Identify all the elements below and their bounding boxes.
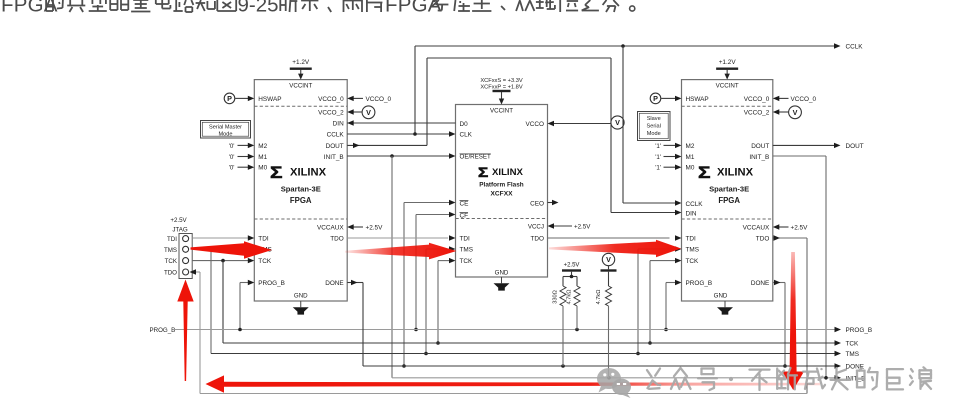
mode box Serial Master Mode [201, 121, 251, 139]
U1 pin label VCCO_0 [318, 96, 344, 103]
U1 pin label M0 [258, 165, 267, 172]
node CCLK top junction [621, 44, 625, 48]
node U1 PROG_B junction [238, 328, 242, 332]
U2 pin label GND [495, 269, 509, 276]
wire CCLK down to U3 [623, 46, 682, 206]
node CE-DONE junction [402, 364, 406, 368]
wire VCCO_0 into U3 [773, 96, 789, 101]
J1 pin circle TDO [183, 269, 189, 275]
wire V into U1 VCCO_2 [347, 109, 362, 114]
wire 1 to U3 M1 [664, 154, 682, 159]
U2 pin label CEO [530, 200, 544, 207]
wire U2 TDO to U3 TDI [548, 235, 682, 240]
logic 0 label at U1 M1 [229, 154, 235, 161]
U3 internal dashed separator top [682, 105, 773, 107]
wire J1 TMS to U1 TMS [192, 246, 254, 251]
U1 pin label VCCAUX [317, 225, 344, 232]
red arrow U2 TDO to U3 TMS [549, 240, 681, 257]
logic 0 label at U1 M0 [229, 165, 235, 172]
supply symbol V at U1 VCCO_2 [362, 106, 375, 119]
resistor R3 label 4.7k [596, 290, 602, 305]
wire PROG_B net to U2 CF [416, 212, 456, 330]
U1 pin label INIT_B [324, 154, 344, 161]
wire PROG_B to U3 [666, 280, 682, 330]
watermark wechat logo big bubble [597, 368, 621, 393]
U2 pin label VCCJ [528, 224, 544, 231]
U3 pin label TDO [756, 236, 770, 243]
watermark wechat logo small bubble [612, 379, 631, 398]
watermark text [647, 367, 931, 390]
node U3 DONE junction [783, 364, 787, 368]
U1 pin label CCLK [327, 132, 345, 139]
U2 pin label TDI [460, 236, 471, 243]
wire CCLK vertical from U1 [414, 46, 416, 134]
node U2 TCK junction [436, 341, 440, 345]
node INIT_B 4.7k junction [607, 376, 611, 380]
wire U1 PROG_B up [240, 280, 254, 330]
label PROG_B left [150, 327, 176, 334]
wire 0 to U1 M2 [238, 143, 255, 148]
mode box Slave Serial Mode [638, 112, 671, 141]
wire U1 DOUT out [347, 143, 427, 148]
pullup symbol P for U1 HSWAP [224, 93, 235, 104]
supply symbol V at U3 VCCO_2 [789, 106, 802, 119]
U3 pin label VCCAUX [743, 225, 770, 232]
wire 0 to U1 M1 [238, 154, 255, 159]
resistor R1 label 330 [553, 290, 559, 304]
wire U1 INIT_B to U2 OE/RESET [347, 153, 455, 158]
U2 pin label TCK [460, 258, 474, 265]
red arrow U1 TDO to U2 TMS [345, 243, 457, 260]
U3 pin label TDI [686, 236, 697, 243]
wire J1 TCK to U1 TCK [192, 258, 254, 263]
U2 pin label TMS [460, 247, 474, 254]
U1 label FPGA [290, 196, 312, 205]
wire CCLK top net [415, 43, 841, 48]
wire TCK to U2 [438, 258, 456, 343]
node U3 PROG_B junction [664, 328, 668, 332]
supply symbol V for PROG_B pullup [602, 253, 614, 265]
wire J1 TDI to U1 TDI [192, 235, 254, 240]
wire TMS bus [211, 351, 841, 356]
resistor R2 label 4.7k [567, 290, 573, 305]
wire U3 DOUT out [773, 143, 841, 148]
wire TMS to U3 [638, 246, 682, 353]
U2 pin label D0 [460, 121, 469, 128]
wire TCK bus [223, 340, 841, 345]
power +1.2V for U1 [290, 59, 312, 80]
logic 1 label at U3 M2 [655, 143, 661, 150]
wire U1 DONE down [347, 280, 363, 366]
U1 pin label DONE [325, 280, 343, 287]
U2 Xilinx logo glyph [478, 166, 488, 181]
U2 internal dashed separator [456, 218, 548, 220]
wire U3 TDO return [773, 235, 807, 393]
U1 pin label VCCINT [289, 82, 312, 89]
U2 pin label OE/RESET [460, 154, 492, 161]
U3 pin label DONE [751, 280, 769, 287]
wire pullup split [563, 272, 577, 279]
wire +2.5V into U1 VCCAUX [347, 224, 363, 229]
label PROG_B external [846, 327, 873, 334]
node U3 TCK junction [648, 341, 652, 345]
U2 CEO output stub [548, 200, 559, 205]
FPGA U1 box (Spartan-3E master) [254, 80, 347, 301]
wire U2 D0 to U1 DIN [347, 120, 455, 125]
U3 pin label CCLK [686, 201, 704, 208]
J1 label TDI [167, 236, 177, 243]
power bar for V pullup [601, 266, 617, 272]
wire 1 to U3 M0 [664, 165, 682, 170]
U1 logo text XILINX [290, 167, 327, 179]
U2 logo text XILINX [492, 167, 524, 178]
wire DOUT down to U3 DIN [611, 58, 682, 215]
Platform Flash U2 box [456, 105, 548, 278]
U3 pin label HSWAP [686, 96, 709, 103]
wire V into U2 VCCO [548, 121, 611, 126]
external label VCCO_0 at U3 [791, 96, 817, 103]
U2 label Platform Flash [479, 181, 523, 188]
wire 0 to U1 M0 [238, 165, 255, 170]
node DONE 330ohm junction [561, 364, 565, 368]
U1 pin label TDO [330, 236, 344, 243]
caption chinese text line (cropped) [1, 0, 635, 17]
U2 pin label CLK [460, 131, 473, 138]
label TCK external [846, 341, 860, 348]
J1 label TCK [165, 258, 178, 265]
FPGA U3 box (Spartan-3E slave) [682, 80, 773, 301]
U2 pin label VCCO [526, 121, 544, 128]
U2 pin label CF [460, 212, 469, 219]
red arrow U3 TDO down [782, 252, 804, 390]
J1 pin circle TDI [183, 236, 189, 242]
U3 pin label DIN [686, 211, 697, 218]
U3 pin label M1 [686, 154, 695, 161]
J1 pin circle TMS [183, 246, 189, 252]
wire U3 DONE down [773, 280, 785, 366]
logic 1 label at U3 M1 [655, 154, 661, 161]
ground symbol below U1 [293, 301, 309, 315]
label TMS external [846, 351, 860, 358]
U1 pin label GND [294, 292, 308, 299]
external label VCCO_0 at U1 [366, 96, 392, 103]
power +2.5V for pullups [562, 263, 581, 272]
U1 pin label TDI [258, 236, 269, 243]
wire TMS to U2 [426, 246, 456, 353]
node U2 TMS junction [424, 352, 428, 356]
U3 pin label M2 [686, 143, 695, 150]
U3 logo text XILINX [717, 167, 754, 179]
wire TMS vertical [210, 249, 212, 354]
red arrow header TMS to U1 TDI/TMS [191, 241, 273, 258]
U1 pin label HSWAP [258, 96, 281, 103]
U1 pin label M1 [258, 154, 267, 161]
resistor R1 330ohm body [560, 277, 566, 367]
wire TDO up to J1 [190, 269, 201, 393]
U2 pin label TDO [531, 236, 545, 243]
U3 Xilinx logo glyph [698, 163, 710, 181]
wire U1 CCLK to U2 CLK [347, 131, 455, 136]
ground symbol below U3 [717, 301, 733, 315]
wire 1 to U3 M2 [664, 143, 682, 148]
wire +2.5V into U3 VCCAUX [773, 224, 789, 229]
U1 Xilinx logo glyph [270, 163, 282, 181]
logic 0 label at U1 M2 [229, 143, 235, 150]
J1 label TMS [164, 247, 177, 254]
wire TDO bottom return line [200, 393, 807, 395]
U3 pin label TMS [686, 247, 700, 254]
label DOUT external [846, 143, 864, 150]
node CCLK junction at U2 CLK [413, 132, 417, 136]
wire DONE bus [363, 363, 841, 368]
node PROG_B 4.7k junction [575, 328, 579, 332]
node U3 TMS junction [636, 352, 640, 356]
U1 internal dashed separator top [254, 105, 347, 107]
node INIT_B junction [390, 154, 394, 158]
label DONE external [846, 364, 864, 371]
label CCLK external [846, 44, 864, 51]
wire TCK vertical [222, 261, 224, 343]
wire INIT_B vertical [391, 156, 393, 378]
label +2.5V at JTAG header [170, 217, 187, 224]
U3 pin label INIT_B [749, 154, 769, 161]
U2 pin label CE [460, 200, 469, 207]
logic 1 label at U3 M0 [655, 165, 661, 172]
U3 label FPGA [718, 196, 740, 205]
JTAG header J1 box [179, 234, 192, 279]
U1 pin label TMS [258, 247, 272, 254]
U3 pin label DOUT [751, 143, 769, 150]
node TCK junction at J1 [221, 259, 225, 263]
resistor R2 4.7k body [574, 277, 580, 330]
external label +2.5V at U2 VCCJ [574, 223, 591, 230]
U3 pin label VCCO_2 [744, 110, 770, 117]
wire INIT_B bus [392, 375, 841, 380]
red arrow JTAG TDO up into header [177, 280, 193, 382]
resistor R3 4.7k body [606, 272, 612, 378]
power +1.2V for U3 [716, 59, 738, 80]
U1 pin label DIN [333, 121, 344, 128]
U3 pin label PROG_B [686, 280, 713, 287]
pullup symbol P for U3 HSWAP [650, 93, 661, 104]
node TMS junction at J1 [209, 247, 213, 251]
U2 pin label VCCINT [490, 107, 513, 114]
U3 pin label M0 [686, 165, 695, 172]
power bar for U2 VCCINT [493, 90, 511, 105]
U1 pin label TCK [258, 258, 272, 265]
U3 pin label VCCO_0 [744, 96, 770, 103]
wire U1 TDO to U2 TDI [347, 235, 455, 240]
wire VCCO_0 into U1 [347, 96, 363, 101]
U1 pin label VCCO_2 [318, 110, 344, 117]
U3 label Spartan-3E [709, 185, 749, 194]
wire P to U3 HSWAP [661, 96, 681, 101]
U2 supply note XCFxxS [480, 78, 523, 84]
U3 pin label GND [714, 292, 728, 299]
J1 label TDO [164, 270, 177, 277]
U3 pin label TCK [686, 258, 700, 265]
U1 label Spartan-3E [281, 185, 321, 194]
wire PROG_B bus [173, 327, 842, 332]
wire DOUT up and across [427, 58, 611, 145]
U1 pin label DOUT [326, 143, 344, 150]
wire P to U1 HSWAP [235, 96, 254, 101]
external label +2.5V at U1 VCCAUX [366, 225, 384, 232]
ground symbol below U2 [494, 277, 510, 291]
wire TCK to U3 [650, 258, 682, 343]
supply symbol V at U2 VCCO [611, 116, 624, 129]
U2 supply note XCFxxP [480, 85, 522, 91]
wire V into U3 VCCO_2 [773, 109, 789, 114]
U1 internal dashed separator bottom [254, 218, 347, 220]
label INIT_B external [846, 375, 866, 382]
label JTAG at header [172, 226, 188, 233]
J1 pin circle TCK [183, 258, 189, 264]
U1 pin label M2 [258, 143, 267, 150]
wire +2.5V into U2 VCCJ [548, 223, 573, 228]
node CF-PROG_B junction [414, 328, 418, 332]
U2 label XCFXX [491, 190, 514, 197]
external label +2.5V at U3 VCCAUX [791, 225, 809, 232]
wire U3 INIT_B across [773, 156, 826, 378]
red arrow long return to header [206, 375, 821, 392]
node U3 INIT_B junction [824, 376, 828, 380]
U3 internal dashed separator bottom [682, 218, 773, 220]
U3 pin label VCCINT [716, 82, 739, 89]
U1 pin label PROG_B [258, 280, 285, 287]
wire DONE net to U2 CE [404, 200, 456, 366]
